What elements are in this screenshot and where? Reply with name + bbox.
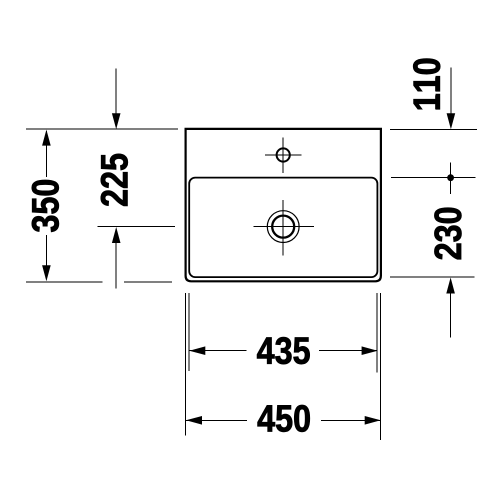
label 225	[101, 154, 128, 206]
drain cross horizontal	[253, 226, 314, 228]
dim 350 shaft lower	[45, 235, 47, 280]
basin inner bowl outline	[189, 178, 377, 278]
dim 350 arrow down	[42, 265, 51, 281]
dim 110 shaft	[450, 68, 452, 127]
dim 435 line right	[319, 350, 378, 352]
extension vertical left inner	[188, 293, 190, 371]
extension line bottom left segment a	[26, 281, 103, 283]
label 450	[258, 405, 310, 432]
dim 230 lower shaft	[450, 280, 452, 338]
dim 110 arrow down	[447, 113, 456, 129]
dim 435 arrow right	[362, 346, 378, 355]
extension vertical left outer	[185, 293, 187, 436]
basin outer outline 450x350	[186, 129, 381, 281]
dim 450 arrow right	[365, 416, 381, 425]
dim 350 arrow up	[42, 130, 51, 146]
dim 230 dot	[447, 174, 454, 181]
dim 450 line left	[186, 419, 247, 421]
dim 225 arrow down	[112, 113, 121, 129]
dim 350 shaft upper	[45, 131, 47, 177]
label 110	[413, 59, 440, 110]
extension vertical right outer	[380, 293, 382, 440]
faucet cross vertical	[282, 138, 284, 174]
drain cross vertical	[282, 200, 284, 255]
extension line drain left	[98, 226, 175, 228]
drain outer circle	[267, 211, 299, 243]
dim 435 arrow left	[189, 346, 205, 355]
dim 225 lower shaft	[115, 229, 117, 289]
dim 450 line right	[321, 419, 381, 421]
extension line top right	[390, 128, 477, 130]
label 435	[257, 337, 310, 364]
label 350	[32, 180, 59, 232]
dim 450 arrow left	[186, 416, 202, 425]
extension line bottom right	[390, 276, 475, 278]
faucet hole	[277, 148, 290, 161]
label 230	[434, 208, 461, 259]
extension vertical right inner	[376, 293, 378, 373]
drain inner circle	[272, 216, 294, 238]
dim 435 line left	[189, 350, 246, 352]
dim 225 arrow up	[112, 227, 121, 243]
dim 230 shaft through dot	[450, 163, 452, 194]
faucet cross horizontal	[265, 154, 301, 156]
extension line top left	[26, 128, 178, 130]
extension line bottom left segment b	[124, 281, 172, 283]
extension line faucet ledge right	[391, 177, 476, 179]
dim 230 arrow up	[446, 278, 455, 294]
dim 225 upper shaft	[115, 69, 117, 127]
